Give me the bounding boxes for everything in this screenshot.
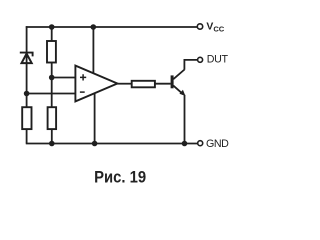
wire op-amp output to R4 — [117, 83, 132, 85]
wire top VCC rail — [26, 26, 198, 28]
node R3 ground junction — [49, 141, 55, 147]
terminal DUT — [198, 57, 203, 62]
transistor Q1 — [171, 70, 185, 96]
op-amp U1 — [75, 66, 117, 102]
op-amp - input label — [80, 91, 85, 93]
svg-text:VCC: VCC — [206, 21, 224, 33]
wire R2 bottom to ground rail — [26, 129, 28, 144]
node inverting-input junction — [24, 91, 30, 97]
svg-text:Рис. 19: Рис. 19 — [94, 168, 146, 187]
wire rail to R1 — [51, 27, 53, 41]
wire op-amp negative supply — [94, 93, 96, 144]
wire collector to DUT terminal — [184, 60, 197, 70]
svg-text:DUT: DUT — [207, 53, 229, 65]
wire emitter to ground rail — [184, 95, 186, 144]
node op-amp V+ junction — [91, 24, 97, 30]
node R1 top junction — [49, 24, 55, 30]
wire zener anode down to inverting node — [26, 63, 28, 94]
resistor R3 — [48, 107, 57, 129]
terminal GND — [198, 141, 203, 146]
resistor R4 — [132, 81, 155, 88]
node op-amp supply ground junction — [92, 141, 98, 147]
wire inverting node down to R2 — [26, 94, 28, 108]
node noninverting-input junction — [49, 75, 55, 81]
op-amp + input label — [80, 74, 86, 80]
wire R3 bottom to ground rail — [51, 129, 53, 144]
wire noninverting node down to R3 (crosses - input wire) — [51, 78, 53, 108]
wire noninverting input to op-amp + — [52, 77, 76, 79]
wire R1 bottom to noninverting node — [51, 63, 53, 78]
wire left vertical from rail to zener cathode — [26, 26, 28, 52]
wire R4 to transistor base — [155, 83, 171, 85]
wire inverting input to op-amp - — [27, 93, 76, 95]
svg-text:GND: GND — [206, 138, 229, 150]
resistor R2 — [22, 107, 31, 129]
wire op-amp positive supply — [92, 27, 94, 74]
node emitter ground junction — [182, 141, 188, 147]
terminal VCC — [197, 24, 202, 29]
resistor R1 — [47, 41, 56, 63]
wire bottom ground rail — [26, 143, 198, 145]
zener diode VD1 — [20, 53, 33, 64]
